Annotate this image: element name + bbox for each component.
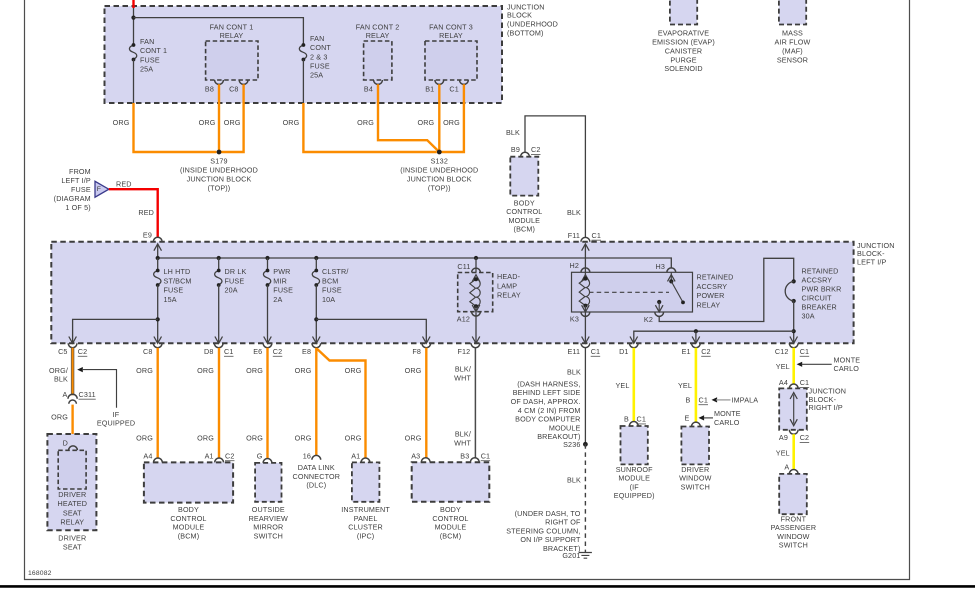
svg-text:B3: B3 [460,451,469,460]
svg-text:2 & 3: 2 & 3 [310,52,328,61]
svg-text:(UNDER DASH, TO: (UNDER DASH, TO [515,509,581,518]
body control module (BCM) lower right [412,462,490,502]
svg-text:HEATED: HEATED [58,499,88,508]
svg-text:ORG: ORG [283,118,300,127]
svg-text:ORG: ORG [246,434,263,443]
note MONTE CARLO at C12 [797,362,803,367]
svg-text:PURGE: PURGE [670,55,696,64]
svg-text:ST/BCM: ST/BCM [164,276,192,285]
svg-text:G: G [257,451,263,460]
fuse LH HTD ST/BCM FUSE 15A [157,258,159,271]
svg-text:YEL: YEL [776,362,790,371]
wire ORG pin C8 to splice S179 [221,84,244,152]
pin A1 C2 of BCM [215,458,224,462]
svg-text:F8: F8 [412,347,421,356]
svg-text:AIR FLOW: AIR FLOW [775,38,811,47]
svg-text:EQUIPPED: EQUIPPED [97,419,135,428]
svg-text:CARLO: CARLO [834,364,860,373]
wire fuse feed inside underhood block [133,8,135,45]
mass air flow (MAF) sensor [779,0,806,25]
svg-text:BLK: BLK [567,367,581,376]
svg-text:DR LK: DR LK [225,267,247,276]
svg-text:16: 16 [303,451,311,460]
svg-text:FAN: FAN [310,34,324,43]
wire CLSTR/BCM fuse output to E8 and F8 [315,285,317,343]
pin D1 [629,343,638,347]
svg-text:ORG: ORG [113,118,130,127]
svg-text:C2: C2 [701,347,711,356]
svg-text:C12: C12 [775,347,789,356]
svg-text:MODULE: MODULE [508,216,540,225]
svg-text:E9: E9 [143,230,152,239]
svg-text:OF DASH, APPROX.: OF DASH, APPROX. [511,397,581,406]
svg-text:RELAY: RELAY [697,300,721,309]
wire BLK E11 to splice S236 [584,348,586,445]
svg-text:D8: D8 [204,347,214,356]
body control module (BCM) upper [510,157,538,196]
pin C1 of fan cont 3 relay [460,80,469,84]
svg-text:MODULE: MODULE [549,423,581,432]
svg-text:10A: 10A [322,295,335,304]
evaporative emission (EVAP) canister purge solenoid [670,0,697,25]
wire fuse 1 output [133,60,135,104]
svg-text:WHT: WHT [454,374,471,383]
svg-text:ORG: ORG [199,118,216,127]
svg-text:C11: C11 [457,262,470,271]
svg-text:SEAT: SEAT [63,508,82,517]
svg-text:JUNCTION BLOCK: JUNCTION BLOCK [187,175,252,184]
svg-text:ORG: ORG [197,366,214,375]
svg-text:A1: A1 [351,451,360,460]
wire ORG fuse 2 to splice S132 [303,103,436,152]
svg-text:BLK: BLK [567,475,581,484]
svg-text:SWITCH: SWITCH [681,482,710,491]
svg-text:FRONT: FRONT [781,514,807,523]
svg-text:A: A [784,463,789,472]
svg-text:(DLC): (DLC) [306,481,326,490]
svg-text:ON I/P SUPPORT: ON I/P SUPPORT [520,535,581,544]
svg-text:BODY COMPUTER: BODY COMPUTER [515,415,580,424]
svg-text:BODY: BODY [440,505,461,514]
svg-text:YEL: YEL [615,381,629,390]
svg-text:SENSOR: SENSOR [777,55,808,64]
svg-text:LEFT I/P: LEFT I/P [61,176,90,185]
svg-text:E1: E1 [682,347,691,356]
svg-text:C2: C2 [225,451,235,460]
data link connector (DLC) pin 16 [312,455,321,459]
svg-text:ORG: ORG [295,434,312,443]
wire YEL D1 to sunroof module [632,348,635,422]
splice S132 [437,150,442,155]
svg-text:BLOCK: BLOCK [507,11,532,20]
pin H3 of RAP relay [667,268,676,272]
svg-text:A3: A3 [411,451,420,460]
svg-text:JUNCTION BLOCK: JUNCTION BLOCK [407,175,472,184]
body control module (BCM) lower left [144,462,233,502]
svg-text:CONT 1: CONT 1 [140,46,167,55]
svg-text:ORG: ORG [197,434,214,443]
wire ORG C8 to BCM A4 [156,348,158,458]
fuse CLSTR/BCM FUSE 10A [315,258,317,271]
pin A1 of IPC [361,458,370,462]
svg-text:2A: 2A [273,295,282,304]
svg-text:S132: S132 [431,157,448,166]
svg-text:S236: S236 [563,440,580,449]
svg-text:C1: C1 [591,347,601,356]
internal link arrow junction block right I/P [793,395,795,424]
svg-text:MONTE: MONTE [714,409,741,418]
relay FAN CONT 2 RELAY [364,41,392,80]
svg-text:RED: RED [116,180,132,189]
svg-text:SOLENOID: SOLENOID [664,64,702,73]
svg-text:BLK/: BLK/ [455,429,471,438]
svg-text:RELAY: RELAY [439,31,463,40]
svg-text:BCM: BCM [322,276,338,285]
svg-text:HEAD-: HEAD- [497,272,521,281]
outside rearview mirror switch [255,463,281,502]
svg-text:DRIVER: DRIVER [58,534,86,543]
wire DR LK fuse output to D8 [218,285,220,343]
svg-text:25A: 25A [140,64,153,73]
svg-text:FUSE: FUSE [310,61,330,70]
relay FAN CONT 3 RELAY [425,41,477,80]
svg-text:168082: 168082 [28,570,52,577]
svg-text:(MAF): (MAF) [782,46,803,55]
wire ORG F8 to BCM A3 [425,348,427,458]
svg-text:FUSE: FUSE [322,286,342,295]
svg-text:LH HTD: LH HTD [164,267,191,276]
RAP relay actuation dashed link [589,291,669,293]
svg-text:ORG: ORG [345,434,362,443]
fuse FAN CONT 2 & 3 FUSE 25A [299,45,306,60]
svg-text:RELAY: RELAY [60,517,84,526]
svg-text:ORG: ORG [51,413,68,422]
svg-text:RETAINED: RETAINED [802,266,839,275]
pin C8 of fan cont 1 relay [239,80,248,84]
wire BLK S236 to ground G201 [584,444,586,552]
svg-text:SWITCH: SWITCH [254,532,283,541]
svg-text:C1: C1 [637,415,647,424]
svg-text:DRIVER: DRIVER [58,490,86,499]
pin D8 C1 [214,343,223,347]
svg-text:CONNECTOR: CONNECTOR [293,472,341,481]
svg-text:CONTROL: CONTROL [506,207,542,216]
svg-text:B: B [686,395,691,404]
svg-text:BEHIND LEFT SIDE: BEHIND LEFT SIDE [513,388,581,397]
driver window switch [692,422,701,426]
svg-text:E6: E6 [253,347,262,356]
pin E1 C2 [692,343,701,347]
pin A9 C2 of junction block right I/P [789,430,798,434]
svg-text:CARLO: CARLO [714,418,740,427]
svg-text:D1: D1 [619,347,629,356]
splice S236 [583,442,588,447]
svg-text:ORG: ORG [295,366,312,375]
svg-text:FUSE: FUSE [273,286,293,295]
svg-text:(INSIDE UNDERHOOD: (INSIDE UNDERHOOD [400,166,478,175]
svg-text:E8: E8 [302,347,311,356]
svg-text:ORG: ORG [405,434,422,443]
svg-text:ORG: ORG [405,366,422,375]
pin E9 of junction block left I/P [153,237,162,241]
svg-text:RELAY: RELAY [220,31,244,40]
svg-text:CLUSTER: CLUSTER [348,523,383,532]
svg-text:YEL: YEL [776,448,790,457]
svg-text:(DASH HARNESS,: (DASH HARNESS, [517,379,580,388]
svg-text:ORG: ORG [246,366,263,375]
svg-text:PANEL: PANEL [354,514,378,523]
svg-text:WINDOW: WINDOW [679,474,712,483]
fuse PWR MIR FUSE 2A [267,258,269,271]
pin A4 of BCM [154,458,163,462]
svg-text:MIR: MIR [273,276,287,285]
svg-text:FUSE: FUSE [140,55,160,64]
pin E8 [312,343,321,347]
svg-text:B1: B1 [425,84,434,93]
svg-text:F11: F11 [568,231,580,240]
svg-text:INSTRUMENT: INSTRUMENT [341,505,390,514]
svg-text:(IPC): (IPC) [357,532,375,541]
svg-text:C8: C8 [143,347,153,356]
svg-text:E: E [685,414,690,423]
svg-text:FUSE: FUSE [225,276,245,285]
svg-text:BLK/: BLK/ [455,364,471,373]
svg-text:CLSTR/: CLSTR/ [322,267,348,276]
svg-text:MIRROR: MIRROR [253,523,283,532]
svg-text:(BCM): (BCM) [440,532,462,541]
svg-text:(BCM): (BCM) [178,532,200,541]
relay FAN CONT 1 RELAY [206,41,258,80]
pin B4 of fan cont 2 relay [374,80,383,84]
wire circuit breaker output to C12 D1 E1 [793,301,795,343]
pin E6 C2 [263,343,272,347]
svg-text:1 OF 5): 1 OF 5) [65,203,90,212]
svg-text:WHT: WHT [454,439,471,448]
svg-text:CONTROL: CONTROL [432,514,468,523]
svg-text:WINDOW: WINDOW [777,532,810,541]
instrument panel cluster (IPC) [352,462,380,501]
svg-text:PWR: PWR [273,267,290,276]
pin A12 headlamp relay output [475,306,477,343]
wire PWR MIR fuse output to E6 [267,285,269,343]
pin F12 [471,343,480,347]
svg-text:FAN: FAN [140,37,154,46]
svg-text:BODY: BODY [178,505,199,514]
fuse DR LK FUSE 20A [218,258,220,271]
svg-text:MODULE: MODULE [618,474,650,483]
svg-text:FUSE: FUSE [164,286,184,295]
wire ORG pin B1 to splice S132 [438,84,440,152]
wire RED from left I/P fuse to E9 [109,189,158,237]
splice S179 [217,150,222,155]
pin C12 C1 [789,343,798,347]
svg-text:SUNROOF: SUNROOF [616,465,653,474]
svg-text:PWR BRKR: PWR BRKR [802,284,842,293]
svg-text:LEFT I/P: LEFT I/P [857,257,886,266]
svg-text:ORG: ORG [224,118,241,127]
junction block (underhood bottom) [105,6,503,103]
junction block left I/P [51,242,853,344]
svg-text:(TOP)): (TOP)) [428,184,451,193]
svg-text:RETAINED: RETAINED [697,273,734,282]
svg-text:MASS: MASS [782,29,803,38]
pin H2 of RAP relay [584,244,586,279]
svg-text:C5: C5 [58,347,68,356]
svg-text:FROM: FROM [69,167,91,176]
pin F8 [422,343,431,347]
svg-text:ORG: ORG [357,118,374,127]
wire K2 to circuit breaker [659,258,794,321]
svg-text:EMISSION (EVAP): EMISSION (EVAP) [652,38,715,47]
svg-text:K2: K2 [644,315,653,324]
svg-text:A4: A4 [779,378,788,387]
svg-text:POWER: POWER [697,291,725,300]
driver seat assembly box [47,434,96,530]
connector triangle F from left I/P fuse [95,181,109,197]
svg-text:RIGHT OF: RIGHT OF [545,518,581,527]
svg-text:BLK: BLK [567,208,581,217]
svg-text:H2: H2 [570,261,580,270]
circuit breaker RETAINED ACCSRY PWR BRKR 30A [792,279,796,283]
svg-text:LAMP: LAMP [497,281,517,290]
svg-text:FUSE: FUSE [71,185,91,194]
svg-text:G201: G201 [562,551,580,560]
svg-text:CONT: CONT [310,43,331,52]
svg-text:SWITCH: SWITCH [779,541,808,550]
svg-text:A9: A9 [779,433,788,442]
svg-text:IF: IF [113,410,120,419]
svg-text:4 CM (2 IN) FROM: 4 CM (2 IN) FROM [518,406,581,415]
svg-text:RELAY: RELAY [497,291,521,300]
fuse FAN CONT 1 FUSE 25A [129,45,136,60]
wire YEL C12 to junction block right I/P A4 [792,348,795,384]
pin C8 [153,343,162,347]
pin G of mirror switch [263,459,272,463]
svg-text:BLK: BLK [506,128,520,137]
svg-text:B8: B8 [205,84,214,93]
svg-text:(DIAGRAM: (DIAGRAM [54,194,91,203]
svg-text:RIGHT I/P: RIGHT I/P [809,403,843,412]
svg-text:F12: F12 [457,347,470,356]
pin C5 C2 [68,343,77,347]
svg-text:A: A [63,390,68,399]
svg-text:C1: C1 [481,451,491,460]
svg-text:DATA LINK: DATA LINK [298,463,335,472]
wire ORG E8 branch to IPC A1 [317,349,366,458]
svg-text:ORG: ORG [136,366,153,375]
svg-text:MODULE: MODULE [173,523,205,532]
svg-text:B9: B9 [511,145,520,154]
svg-text:C1: C1 [592,231,602,240]
svg-text:(TOP)): (TOP)) [208,184,231,193]
svg-text:ORG: ORG [136,434,153,443]
svg-text:C8: C8 [229,84,239,93]
pin B9 C2 of BCM [521,152,530,156]
svg-text:RELAY: RELAY [366,31,390,40]
wire YEL A9 to front passenger window switch [792,434,795,469]
note IF EQUIPPED pointer [77,367,83,372]
svg-text:A1: A1 [205,451,214,460]
svg-text:25A: 25A [310,71,323,80]
pin K3 of RAP relay [584,306,586,344]
pin A3 of BCM [421,458,430,462]
pin E11 C1 [581,343,590,347]
wire ORG pin B8 to splice S179 [218,84,220,152]
wire BLK/WHT F12 to BCM B3 [474,348,476,458]
wire ORG C311 to driver heated seat relay D [71,405,73,446]
pin B8 of fan cont 1 relay [215,80,224,84]
svg-text:CIRCUIT: CIRCUIT [802,293,833,302]
wire BLK from BCM B9 to F11 [525,116,585,237]
RAP relay switch contact [671,281,683,302]
svg-text:MODULE: MODULE [435,523,467,532]
svg-text:YEL: YEL [678,381,692,390]
svg-text:RED: RED [138,208,154,217]
svg-text:(IF: (IF [630,482,640,491]
svg-text:CANISTER: CANISTER [665,46,703,55]
svg-text:20A: 20A [225,286,238,295]
wire YEL E1 to driver window switch [695,348,698,422]
svg-text:BREAKER: BREAKER [802,302,837,311]
svg-text:OUTSIDE: OUTSIDE [252,505,285,514]
wire ORG D8 to BCM A1 [218,348,220,458]
svg-text:E11: E11 [567,347,580,356]
svg-text:F: F [97,186,101,193]
svg-text:C1: C1 [800,347,810,356]
wire ORG fuse 1 to splice S179 [134,103,217,152]
svg-text:SEAT: SEAT [63,543,82,552]
svg-text:H3: H3 [656,262,666,271]
svg-text:C2: C2 [78,347,88,356]
svg-text:BLK: BLK [54,374,68,383]
svg-text:REARVIEW: REARVIEW [249,514,288,523]
svg-text:DRIVER: DRIVER [681,465,709,474]
junction block right I/P [789,384,798,388]
svg-text:(BCM): (BCM) [514,225,536,234]
wire ORG E8 to DLC pin 16 [315,348,317,456]
svg-text:EQUIPPED): EQUIPPED) [614,491,655,500]
svg-text:BODY: BODY [514,198,535,207]
svg-text:C1: C1 [449,84,459,93]
svg-text:ORG: ORG [417,118,434,127]
wire LH HTD fuse output to C8 and C5 [157,285,159,343]
svg-text:B4: B4 [364,84,373,93]
svg-text:PASSENGER: PASSENGER [771,523,817,532]
pin K2 of RAP relay [657,300,661,304]
pin B1 of fan cont 3 relay [435,80,444,84]
pin B3 C1 of BCM [470,458,479,462]
svg-text:B: B [624,415,629,424]
wire ORG/BLK C5 to connector C311 [71,348,74,396]
wire ORG pin B4 to splice S132 [378,84,439,152]
svg-text:30A: 30A [802,311,815,320]
wire RED battery feed stub at top [132,0,134,8]
svg-text:C2: C2 [800,433,810,442]
svg-text:CONTROL: CONTROL [170,514,206,523]
svg-text:ACCSRY: ACCSRY [697,282,728,291]
svg-text:ORG: ORG [345,366,362,375]
wire ORG E6 to mirror switch G [266,348,268,459]
svg-text:A4: A4 [143,451,152,460]
svg-text:A12: A12 [457,315,470,324]
svg-text:EVAPORATIVE: EVAPORATIVE [658,29,709,38]
svg-text:C2: C2 [531,145,541,154]
relay HEADLAMP RELAY coil [475,258,477,279]
svg-text:(BOTTOM): (BOTTOM) [507,28,544,37]
svg-text:ACCSRY: ACCSRY [802,275,833,284]
svg-text:S179: S179 [210,157,227,166]
svg-text:C2: C2 [273,347,283,356]
